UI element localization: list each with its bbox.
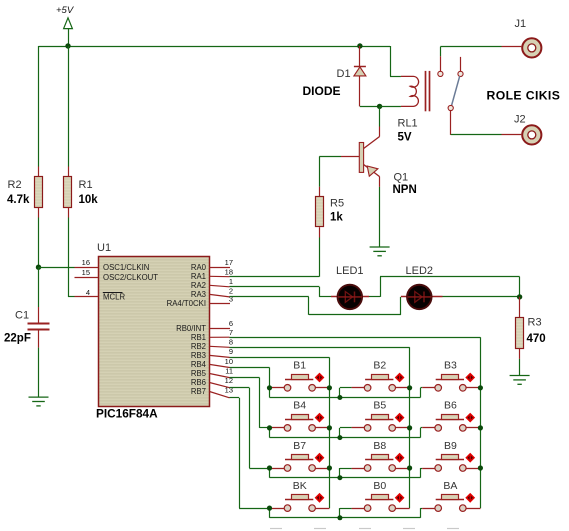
svg-text:B6: B6 [444,400,457,412]
pin 18 (RA1) [210,275,230,277]
indicator LED of B8 [395,453,405,463]
svg-text:RB1: RB1 [191,333,206,342]
pin 6 (RB0/INT) [210,328,231,330]
svg-text:ROLE CIKIS: ROLE CIKIS [487,89,561,103]
svg-text:RA4/T0CKI: RA4/T0CKI [167,299,206,308]
wire: RA3 pin2 long route to LED2 [230,296,309,298]
indicator LED of B0 [395,493,405,503]
push button B6 [421,400,481,432]
wire: R2 top lead [38,46,40,167]
indicator LED of B3 [465,373,475,383]
svg-text:BA: BA [443,480,457,492]
LED1 [331,296,369,298]
wire: RB6 pin12 row 3 feeder [230,387,250,389]
svg-text:7: 7 [229,328,233,337]
svg-text:Q1: Q1 [394,172,409,184]
svg-text:5V: 5V [398,132,412,144]
indicator LED of B1 [315,373,325,383]
wire: LED1 cathode up and over [369,296,380,298]
node: B6 contact junctions [478,425,483,430]
connector J1 [522,38,541,57]
node: diode top junction [357,43,362,48]
resistor R3 body [516,318,524,349]
svg-text:3: 3 [229,294,233,303]
faint cropped-text artifacts at bottom edge [270,528,282,530]
svg-text:RA3: RA3 [191,290,206,299]
svg-text:RB2: RB2 [191,342,206,351]
svg-text:RA1: RA1 [191,272,206,281]
pin 10 (RB4) [210,364,230,367]
pin 7 (RB1) [210,336,230,338]
resistor R5 body [316,197,324,227]
svg-text:RL1: RL1 [398,118,418,130]
svg-text:4: 4 [86,288,90,297]
svg-text:R1: R1 [79,179,93,191]
pin 17 (RA0) [210,267,231,269]
svg-text:RA2: RA2 [191,281,206,290]
push button BK [270,480,330,512]
svg-text:B2: B2 [373,360,386,372]
svg-text:MCLR: MCLR [103,293,125,302]
pin 9 (RB3) [210,355,230,357]
diode D1 [359,46,361,67]
svg-text:R3: R3 [528,317,542,329]
svg-text:C1: C1 [15,310,29,322]
node: B4 contact junctions [267,425,272,430]
ground (C1) [29,397,49,406]
wire: R2 bottom lead [38,208,40,218]
svg-text:U1: U1 [97,242,111,254]
wire: contact to J1 [440,46,501,48]
svg-text:RB4: RB4 [191,360,207,369]
wire: base corner to R5 [319,157,321,187]
pin 16 (OSC1/CLKIN) [75,267,99,269]
svg-text:13: 13 [225,385,233,394]
wire: row 3 lower rail [269,468,271,478]
push button BA [421,480,481,512]
node: LED cathode junction [517,294,522,299]
svg-text:18: 18 [225,267,233,276]
wire: junction to pin16 [39,267,75,269]
svg-text:R2: R2 [8,179,22,191]
wire: base [319,156,341,158]
indicator LED of B4 [315,413,325,423]
wire: row 1 lower rail [269,388,271,398]
svg-text:8: 8 [229,338,233,347]
resistor R2 body [35,177,43,208]
node: row 4 rail junction [337,515,342,520]
indicator LED of B6 [465,413,475,423]
svg-text:D1: D1 [337,68,351,80]
LED2 [401,296,443,298]
node: row 1 rail junction [337,395,342,400]
svg-text:R5: R5 [330,198,344,210]
svg-text:+5V: +5V [56,5,75,16]
wire: pole to J2 [450,111,452,135]
wire: R5 to RA1 pin18 [319,227,321,237]
wire: RB5 pin11 row 2 feeder [230,377,260,379]
svg-text:B4: B4 [293,400,306,412]
node: B1 contact junctions [267,385,272,390]
wire: RB1 pin7 to column 3 [230,337,481,339]
node: B5 contact junctions [407,425,412,430]
node: diode bottom junction [360,106,380,108]
relay contact NC (unconnected) [460,57,462,71]
svg-text:17: 17 [225,258,233,267]
push button B8 [340,440,410,472]
wire: top +5V rail [39,46,391,48]
capacitor C1 [38,267,40,307]
svg-text:OSC2/CLKOUT: OSC2/CLKOUT [103,273,158,282]
svg-text:RB6: RB6 [191,378,206,387]
node: B3 contact junctions [478,385,483,390]
wire: row 4 lower rail [269,508,271,518]
wire: collector [379,106,381,126]
svg-text:B7: B7 [293,440,306,452]
svg-text:B5: B5 [373,400,386,412]
wire: row 2 lower rail [269,428,271,438]
node: B8 contact junctions [407,465,412,470]
svg-text:1: 1 [229,277,233,286]
node: B7 contact junctions [267,465,272,470]
svg-text:10k: 10k [79,194,99,206]
wire: R3 to ground [519,349,521,359]
svg-text:DIODE: DIODE [303,84,341,98]
wire: RB4 pin10 row 1 feeder [230,367,270,369]
pin 3 (RA4/T0CKI) [210,303,231,305]
ground (Q1) [370,247,390,256]
indicator LED of BA [465,493,475,503]
push button B9 [421,440,481,472]
relay switch arm [452,76,460,105]
wire: RB7 pin13 row 4 feeder [230,397,240,399]
svg-text:NPN: NPN [393,184,417,196]
wire: RA2 pin1 to LED1 [230,286,320,288]
svg-text:RB5: RB5 [191,369,207,378]
pin 4 (MCLR) [75,296,99,298]
svg-text:BK: BK [293,480,307,492]
node: R2/C1/pin16 junction [36,265,41,270]
svg-text:J1: J1 [515,18,527,30]
wire: junction to R3 [519,297,521,318]
relay core bars [425,71,427,111]
pin 1 (RA2) [210,285,230,287]
transistor Q1 body bar [359,143,363,173]
svg-text:16: 16 [82,258,90,267]
+5V power symbol [56,5,75,46]
svg-text:6: 6 [229,319,233,328]
pin 12 (RB6) [210,383,230,388]
svg-text:B3: B3 [444,360,457,372]
indicator LED of B9 [465,453,475,463]
svg-text:9: 9 [229,347,233,356]
indicator LED of B2 [395,373,405,383]
indicator LED of BK [315,493,325,503]
relay contact NO (to J1) [440,47,442,57]
push button B0 [340,480,410,512]
connector J2 [522,125,541,144]
node: B9 contact junctions [478,465,483,470]
relay pole contact [448,105,453,110]
svg-text:LED1: LED1 [336,265,364,277]
node: B2 contact junctions [407,385,412,390]
svg-text:4.7k: 4.7k [7,194,30,206]
node: BK contact junctions [267,506,272,511]
pin 11 (RB5) [210,374,230,378]
MCLR overline [103,292,123,294]
push button B3 [421,360,481,392]
svg-text:J2: J2 [514,114,526,126]
svg-text:OSC1/CLKIN: OSC1/CLKIN [103,263,149,272]
push button B7 [270,440,330,472]
svg-text:LED2: LED2 [406,265,434,277]
svg-text:RA0: RA0 [191,263,207,272]
emitter with arrow [364,165,380,177]
svg-text:1k: 1k [330,212,343,224]
wire: C1 to ground [38,331,40,348]
svg-text:B8: B8 [373,440,386,452]
push button B1 [270,360,330,392]
wire: RB2 pin8 to column 2 [230,347,410,349]
wire: rail to coil top [390,46,392,76]
svg-text:RB3: RB3 [191,351,206,360]
wire: coil bottom [380,106,401,108]
pin 8 (RB2) [210,346,230,347]
wire: R1 to MCLR pin4 [68,208,70,218]
svg-text:PIC16F84A: PIC16F84A [96,407,158,421]
indicator LED of B5 [395,413,405,423]
wire: RB3 pin9 to column 1 [230,357,330,359]
ground (R3) [510,376,530,385]
op: U1 PIC16F84A body [99,257,210,407]
svg-text:RB0/INT: RB0/INT [176,324,206,333]
svg-text:470: 470 [527,333,546,345]
svg-text:22pF: 22pF [4,333,31,345]
svg-text:B9: B9 [444,440,457,452]
resistor R1 body [64,177,72,208]
push button B4 [270,400,330,432]
wire: R1 top lead [68,46,70,167]
pin 2 (RA3) [210,294,230,297]
node: +5V junction [65,43,70,48]
pin 13 (RB7) [210,392,230,398]
push button B2 [340,360,410,392]
wire: LED2 cathode to junction [443,296,520,298]
svg-text:B0: B0 [373,480,386,492]
svg-text:B1: B1 [293,360,306,372]
pin 15 (OSC2/CLKOUT) [75,277,99,279]
push button B5 [340,400,410,432]
node: row 3 rail junction [337,475,342,480]
indicator LED of B7 [315,453,325,463]
relay coil RL1 [401,76,419,106]
svg-text:15: 15 [82,268,90,277]
node: row 2 rail junction [337,435,342,440]
svg-text:RB7: RB7 [191,387,206,396]
